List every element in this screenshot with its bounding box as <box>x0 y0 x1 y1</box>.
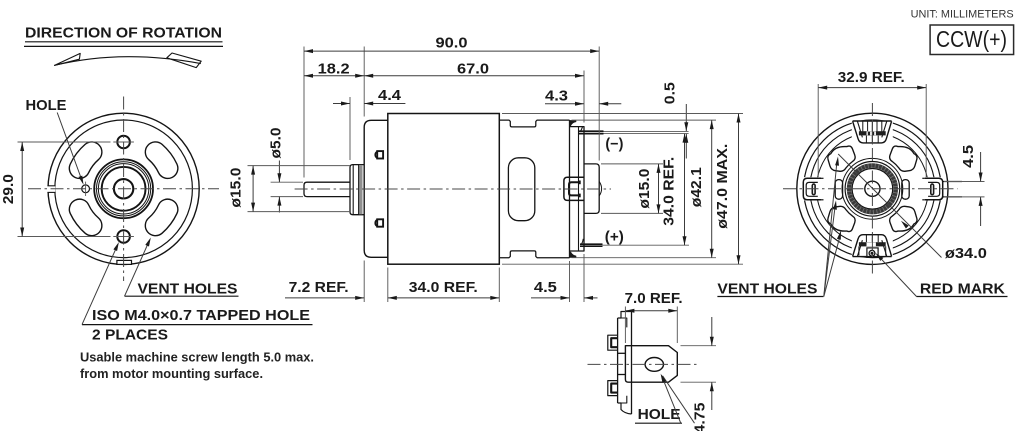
top crimp dark band <box>859 131 886 135</box>
bottom crimp band dark ticks <box>861 243 865 246</box>
rear view horizontal centerline <box>783 188 958 190</box>
svg-text:RED MARK: RED MARK <box>920 280 1005 297</box>
front view inner rim circle (o42.1 housing) <box>55 120 193 258</box>
dim 4.5 rear arrows <box>980 152 982 182</box>
svg-text:HOLE: HOLE <box>26 97 67 114</box>
rear vent hole lower-right <box>890 206 917 231</box>
ext line o42.1 bottom <box>572 257 717 259</box>
minus terminal (side) <box>579 130 604 132</box>
leaders VENT HOLES rear <box>824 161 837 297</box>
svg-text:ISO M4.0×0.7 TAPPED HOLE: ISO M4.0×0.7 TAPPED HOLE <box>92 307 310 324</box>
svg-text:90.0: 90.0 <box>436 35 468 52</box>
detail terminal hole <box>645 358 663 372</box>
front housing (side, 7.2 REF) <box>364 120 388 257</box>
can crimp edge vertical <box>569 120 571 258</box>
rotation arrow tail parallelogram <box>167 53 201 68</box>
rear small slot right (3 oclock) <box>902 180 909 200</box>
front view vent slot lower-right <box>145 199 178 236</box>
underline HOLE (detail) <box>635 422 682 424</box>
small hole left of center <box>82 185 90 193</box>
ext line housing face x364.2 <box>363 47 365 117</box>
crimp corner mark bottom <box>570 252 577 258</box>
svg-text:32.9 REF.: 32.9 REF. <box>838 69 905 86</box>
front boss ring circle 2 <box>98 164 148 214</box>
detail terminal body <box>625 346 677 383</box>
bottom tapped hole (ISO M4) <box>117 230 130 243</box>
rear left tab slot <box>812 184 815 195</box>
small hole vertical tick <box>85 182 87 196</box>
svg-text:4.5: 4.5 <box>534 279 557 296</box>
rear left terminal tab <box>803 178 821 200</box>
rear top crimp white mask <box>852 120 893 143</box>
ext line endbell face down <box>583 254 585 302</box>
svg-text:34.0 REF.: 34.0 REF. <box>661 157 678 226</box>
dim 32.9 REF ext lines <box>817 84 819 177</box>
detail strip top tab <box>618 312 632 319</box>
rear right terminal prongs <box>943 181 962 183</box>
svg-text:2 PLACES: 2 PLACES <box>92 327 168 344</box>
ext line can left down <box>387 268 389 303</box>
dim o47.0 line <box>738 114 740 265</box>
rear vent hole upper-left <box>828 146 855 171</box>
svg-text:Usable machine screw length 5.: Usable machine screw length 5.0 max. <box>80 349 314 364</box>
svg-text:CCW(+): CCW(+) <box>936 26 1007 52</box>
bottom crimp stripes (toward center) <box>865 235 867 242</box>
boss washer gray band <box>359 165 363 214</box>
leader RED MARK <box>878 255 917 297</box>
dim 18.2 line <box>304 75 364 77</box>
ext line o47.0 bottom <box>502 263 743 265</box>
rear right terminal tab white mask <box>923 177 944 200</box>
svg-text:4.3: 4.3 <box>545 87 568 104</box>
rear top crimp outline <box>853 121 892 143</box>
bottom crimp dark band <box>859 242 886 246</box>
detail view centerline <box>588 363 701 365</box>
endbell vent window (side) <box>508 158 534 221</box>
svg-text:from motor mounting surface.: from motor mounting surface. <box>80 366 263 381</box>
front shaft circle (o5) <box>114 179 133 198</box>
svg-text:ø42.1: ø42.1 <box>688 167 705 207</box>
endbell step section bottom edge <box>499 251 569 258</box>
crimp corner mark top <box>570 120 577 126</box>
detail crimp hook lower <box>608 381 618 396</box>
dim o42.1 line <box>711 120 713 258</box>
rear vent hole upper-right <box>890 146 917 171</box>
rear vent hole lower-left <box>828 206 855 231</box>
red mark box <box>867 248 878 257</box>
ext lines o15.0 right <box>601 163 663 165</box>
dim 29.0 extension line top <box>18 141 111 143</box>
brush holder inner C <box>569 182 580 195</box>
svg-text:7.0 REF.: 7.0 REF. <box>625 290 683 307</box>
side view centerline <box>295 188 611 190</box>
dim 34.0 REF bottom line <box>388 297 500 299</box>
front view vertical centerline <box>123 97 125 282</box>
rotation direction arc arrow <box>55 57 201 66</box>
plus terminal extension thin line <box>603 244 690 246</box>
endbell tail outline <box>570 127 585 251</box>
dim 34.0 REF right line <box>684 134 686 246</box>
svg-text:ø15.0: ø15.0 <box>636 169 653 209</box>
rear small slot left (9 oclock) <box>835 180 842 200</box>
dim 4.4 arrows and line <box>333 103 350 105</box>
dim o15.0 left line <box>252 166 254 212</box>
svg-text:HOLE: HOLE <box>638 406 681 423</box>
dim 4.5 rear ext lines <box>944 181 985 183</box>
svg-text:ø34.0: ø34.0 <box>945 245 987 262</box>
underline VENT HOLES (front) <box>125 295 239 297</box>
bottom crimp side verticals <box>858 246 860 255</box>
svg-text:ø47.0 MAX.: ø47.0 MAX. <box>714 144 731 229</box>
dim 29.0 dimension line <box>21 142 23 237</box>
svg-text:ø5.0: ø5.0 <box>268 128 285 159</box>
bottom tapped hole horizontal tick <box>113 236 134 238</box>
ext line shaft tip x304 <box>303 47 305 178</box>
svg-text:(+): (+) <box>605 229 624 245</box>
svg-text:4.5: 4.5 <box>960 145 977 168</box>
rear bottom crimp white mask <box>852 234 893 257</box>
front bearing boss (side) <box>350 165 364 215</box>
endbell step section top edge <box>499 120 569 127</box>
detail strip bottom foot <box>618 403 632 414</box>
ext lines o5.0 <box>271 181 303 183</box>
endbell inner line <box>578 127 580 251</box>
rear endbell plate circle <box>810 126 935 251</box>
svg-text:34.0 REF.: 34.0 REF. <box>409 279 478 296</box>
svg-text:0.5: 0.5 <box>661 82 678 104</box>
ext line housing face down <box>363 261 365 303</box>
dim 7.2 REF line <box>285 297 364 299</box>
main can (side, o47) <box>388 114 500 265</box>
dim 7.0 REF line <box>625 310 677 312</box>
leader VENT HOLES (front) <box>125 241 150 296</box>
leader HOLE (detail) two lines <box>662 376 681 424</box>
dim o15.0 right line <box>658 164 660 214</box>
ext line boss face x350 <box>349 97 351 160</box>
CCW box <box>930 25 1014 55</box>
front view vent slot upper-left <box>69 142 102 179</box>
svg-text:UNIT: MILLIMETERS: UNIT: MILLIMETERS <box>911 9 1014 21</box>
front view outer circle (motor case o47.0) <box>48 113 199 264</box>
front view horizontal centerline <box>28 188 219 190</box>
rear bottom crimp outline <box>853 235 892 257</box>
rear right tab connect lines <box>922 177 925 179</box>
underline VENT HOLES (rear) <box>717 296 823 298</box>
dim 67.0 line <box>364 75 584 77</box>
front view vent slot lower-left <box>69 199 102 236</box>
svg-text:18.2: 18.2 <box>318 61 350 78</box>
dim 32.9 REF line <box>818 87 926 89</box>
ext line crimp edge down <box>569 261 571 302</box>
top tapped hole (ISO M4) <box>117 136 130 149</box>
rear view vertical centerline <box>871 103 873 275</box>
svg-text:VENT HOLES: VENT HOLES <box>138 280 238 297</box>
rear center ring inner thin <box>852 169 893 210</box>
dim 4.5 bottom arrows <box>531 297 570 299</box>
svg-text:(−): (−) <box>605 136 623 152</box>
ext line o42.1 top <box>572 119 717 121</box>
rear bearing boss (side) <box>584 164 599 214</box>
svg-text:DIRECTION OF ROTATION: DIRECTION OF ROTATION <box>25 24 222 41</box>
ext line endbell face x584 <box>583 71 585 123</box>
dim 0.5 line top <box>685 104 687 131</box>
title underline 2 <box>24 45 223 47</box>
rear vent boundary circle <box>842 158 903 219</box>
rear o34.0 reference circle <box>816 133 928 245</box>
svg-text:ø15.0: ø15.0 <box>228 168 245 208</box>
minus terminal extension thin lines <box>604 130 689 132</box>
ext line o47.0 top <box>502 113 743 115</box>
underline RED MARK <box>917 296 1008 298</box>
svg-text:7.2 REF.: 7.2 REF. <box>289 279 349 296</box>
svg-text:4.75: 4.75 <box>692 403 709 431</box>
svg-text:4.4: 4.4 <box>378 87 402 104</box>
dim 4.75 arrows <box>711 317 713 346</box>
rear view rim circle <box>804 120 942 258</box>
front bearing boss outer circle <box>94 159 153 218</box>
rear right tab slot <box>931 184 934 195</box>
dim 0.5 line bottom <box>685 134 687 159</box>
bottom crimp inner side lines <box>857 240 862 256</box>
svg-text:VENT HOLES: VENT HOLES <box>717 280 817 297</box>
top crimp stripes upper <box>862 121 864 131</box>
ext line rear end x599.2 <box>598 47 600 161</box>
rear view outer circle (o47.0) <box>797 113 948 264</box>
ext line can right down <box>498 268 500 303</box>
title underline 1 <box>25 41 223 43</box>
leader line HOLE <box>57 113 82 181</box>
leader ISO tapped hole <box>82 245 117 324</box>
underline ISO label <box>82 324 313 326</box>
top crimp inner side lines <box>857 121 862 137</box>
bottom tab rectangle of front view <box>117 260 132 265</box>
dim o5.0 arrows <box>278 161 280 183</box>
svg-text:67.0: 67.0 <box>457 61 489 78</box>
dim 29.0 extension line bottom <box>18 236 111 238</box>
front view vent slot upper-right <box>145 142 178 179</box>
side view: motor shaft <box>304 182 350 196</box>
detail terminal neck <box>618 352 625 354</box>
rear center ring outer thin <box>845 162 900 217</box>
rear left terminal tab white mask <box>802 177 824 200</box>
svg-text:29.0: 29.0 <box>0 174 17 204</box>
front boss inner circle (o15 pilot) <box>102 167 146 211</box>
rear right terminal tab <box>925 178 943 200</box>
rear shaft end circle <box>865 181 880 196</box>
red mark circle <box>869 250 875 256</box>
rear magnet ring (dark hatched) <box>849 166 896 213</box>
left edge notch of front view <box>46 186 56 193</box>
rear left tab connect lines <box>821 177 824 179</box>
dim 7.0 REF ext lines <box>624 307 626 344</box>
ext lines o15.0 left <box>248 165 351 167</box>
plus terminal (side) <box>580 243 603 245</box>
dim 4.75 ext lines <box>681 345 717 347</box>
leader o34.0 diagonal <box>838 154 941 258</box>
brush holder bracket (side silhouette) <box>564 177 584 200</box>
front boss ring circle <box>97 162 151 216</box>
detail crimp hook upper <box>608 335 618 350</box>
detail view endbell edge strip <box>617 318 619 403</box>
dim 4.3 arrows and line <box>545 103 584 105</box>
shaft end bump on rear boss <box>599 182 601 196</box>
screw hole mark bottom (side) <box>377 219 383 226</box>
dim 90.0 line <box>304 50 599 52</box>
screw hole mark top (side) <box>377 151 383 158</box>
top tapped hole horizontal tick <box>113 141 134 143</box>
top crimp stripes lower <box>865 136 867 143</box>
